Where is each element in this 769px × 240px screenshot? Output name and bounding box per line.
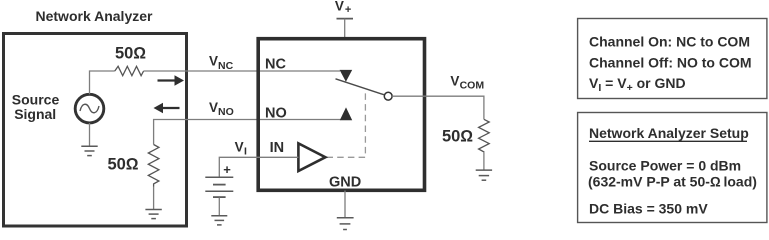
svg-text:+: + xyxy=(345,4,351,16)
dashed control line from driver to switch xyxy=(327,91,366,157)
svg-text:DC Bias = 350 mV: DC Bias = 350 mV xyxy=(589,200,708,216)
source V1 (sine source circle) xyxy=(75,94,104,123)
ground (below R3) xyxy=(476,170,492,180)
switch IC U1 enclosure xyxy=(258,39,424,191)
resistor R3 50 ohm (vertical load) xyxy=(479,119,490,152)
svg-text:V: V xyxy=(235,140,244,155)
switch NC contact (down triangle) xyxy=(340,70,353,82)
wire source top to resistor R1 xyxy=(90,71,115,94)
svg-text:Network Analyzer: Network Analyzer xyxy=(36,8,154,24)
svg-text:50Ω: 50Ω xyxy=(108,156,139,174)
svg-text:V: V xyxy=(209,100,218,115)
switch common pole circle xyxy=(384,92,392,100)
resistor R2 50 ohm (vertical) xyxy=(148,145,159,187)
wire NO pin to resistor R2 (VNO net) xyxy=(154,120,341,145)
arrow right (signal direction into NC) xyxy=(158,75,185,86)
note text: channel on/off xyxy=(589,33,752,94)
driver buffer U1A (triangle) xyxy=(298,143,325,171)
svg-text:V: V xyxy=(335,0,344,13)
note box 1 xyxy=(578,19,767,99)
svg-text:50Ω: 50Ω xyxy=(442,128,473,146)
label: V+ supply xyxy=(335,0,351,16)
svg-text:Channel On: NC to COM: Channel On: NC to COM xyxy=(589,33,750,49)
node label VCOM xyxy=(450,73,484,91)
V+ supply rail symbol xyxy=(337,19,354,39)
svg-text:+: + xyxy=(223,162,231,177)
ground (below R2) xyxy=(145,210,161,219)
note box 2 xyxy=(578,113,767,223)
wire R2 to ground xyxy=(153,187,155,210)
switch arm (pole) xyxy=(336,79,384,95)
svg-text:VI = V+ or GND: VI = V+ or GND xyxy=(589,75,686,94)
svg-text:GND: GND xyxy=(329,174,361,190)
svg-text:IN: IN xyxy=(270,140,285,156)
resistor R1 50 ohm (horizontal) xyxy=(115,66,144,75)
svg-text:50Ω: 50Ω xyxy=(115,45,146,63)
ground (below U1 GND) xyxy=(337,218,354,230)
svg-text:Network Analyzer Setup: Network Analyzer Setup xyxy=(589,125,749,141)
wire battery to ground xyxy=(218,198,220,216)
wire COM pole to load (VCOM net) xyxy=(392,96,484,119)
wire R3 to ground xyxy=(483,152,485,169)
svg-text:V: V xyxy=(450,73,459,88)
node label VNC xyxy=(209,54,234,72)
switch NO contact (up triangle) xyxy=(340,107,352,120)
note text: network analyzer setup xyxy=(588,125,757,216)
svg-text:V: V xyxy=(209,54,218,69)
svg-text:NO: NO xyxy=(218,106,234,118)
network analyzer enclosure box xyxy=(4,34,187,227)
node label VI xyxy=(235,140,247,158)
svg-text:COM: COM xyxy=(460,80,485,92)
svg-text:(632-mV P-P at 50-Ω load): (632-mV P-P at 50-Ω load) xyxy=(588,173,757,189)
arrow left (signal direction out of NO) xyxy=(154,103,180,114)
svg-text:NC: NC xyxy=(265,56,286,72)
svg-text:Channel Off: NO to COM: Channel Off: NO to COM xyxy=(589,54,752,70)
wire GND pin to ground xyxy=(344,191,346,218)
svg-text:I: I xyxy=(244,146,247,158)
ground (below source) xyxy=(81,146,97,155)
svg-text:Source Power = 0 dBm: Source Power = 0 dBm xyxy=(589,157,741,173)
svg-text:NC: NC xyxy=(218,60,234,72)
node label VNO xyxy=(209,100,234,118)
svg-text:Signal: Signal xyxy=(14,106,56,122)
battery B1 plates xyxy=(205,177,233,197)
wire battery to IN pin xyxy=(219,157,298,177)
svg-text:NO: NO xyxy=(265,106,287,122)
wire source bottom to ground xyxy=(89,123,91,146)
ground (below battery) xyxy=(211,216,227,225)
wire R1 to NC pin (VNC net) xyxy=(144,70,340,72)
